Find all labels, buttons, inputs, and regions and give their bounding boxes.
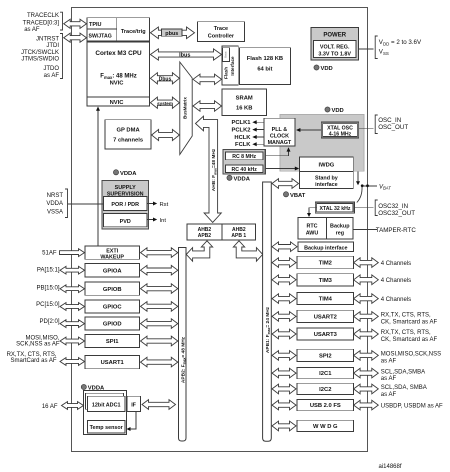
wire adc pins arrow [62,402,84,410]
svg-text:Cortex M3 CPU: Cortex M3 CPU [95,50,142,57]
wire I2C2 pins arrow [354,384,379,394]
svg-text:VDDA: VDDA [234,176,251,182]
wire apb2-USART1 arrow [141,357,178,367]
svg-text:GPIOA: GPIOA [103,268,122,274]
clock control gray region [280,115,364,172]
svg-text:4 Channels: 4 Channels [381,297,411,303]
wire busmatrix-flash arrow [193,74,222,84]
svg-text:WAKEUP: WAKEUP [100,255,124,261]
svg-text:TRACED[0:3]: TRACED[0:3] [23,20,60,26]
svg-text:I2C1: I2C1 [319,371,332,377]
svg-text:SCL,SDA,SMBA: SCL,SDA,SMBA [381,369,425,375]
svg-text:USART1: USART1 [101,360,125,366]
wire trace signals arrow [64,19,87,28]
USB 2.0 FS [297,400,354,411]
wire busmatrix-sram arrow [193,101,222,111]
XTAL OSC 4-16 MHz [321,122,359,138]
wire TIM4 pins arrow [354,294,379,304]
wire bridge to APB2 elbow arrow [186,241,212,261]
OSC32 pins bracket [375,200,378,216]
trace controller [197,22,244,42]
svg-text:USART3: USART3 [314,332,338,338]
svg-text:TIM2: TIM2 [319,261,332,267]
svg-text:W W D G: W W D G [313,424,338,430]
svg-text:MOSI,MISO,SCK,NSS: MOSI,MISO,SCK,NSS [381,352,441,358]
at VDDA label (supply) [113,170,118,175]
GP DMA [105,120,151,149]
wire apb1-TIM3 arrow [272,275,296,285]
PVD [103,214,147,227]
backup interface [298,242,354,252]
svg-text:CK, Smartcard as AF: CK, Smartcard as AF [381,337,438,343]
wire apb1-SPI2 arrow [272,351,296,361]
USART3 [297,328,354,340]
wire apb1-USB 2.0 FS arrow [272,400,296,410]
svg-text:VDD: VDD [332,108,344,114]
svg-text:AWU: AWU [306,230,319,236]
svg-text:4 Channels: 4 Channels [381,261,411,267]
wire exti to nvic [97,110,99,246]
svg-text:Flash 128 KB: Flash 128 KB [247,56,283,62]
svg-text:XTAL 32 kHz: XTAL 32 kHz [320,206,351,212]
SPI1 [85,335,140,348]
svg-text:I2C2: I2C2 [319,387,331,393]
ADC IF box [127,396,141,411]
wire adc if to temp sensor [130,412,137,429]
POR/PDR [103,196,147,210]
debug block (TPIU/SWJTAG/Trace-trig) [87,18,150,41]
wire rc40 to iwdg [265,168,297,170]
svg-text:SUPPLY: SUPPLY [115,185,136,191]
svg-text:BusMatrix: BusMatrix [182,97,187,119]
svg-text:AHB2: AHB2 [232,227,246,233]
wire Ibus arrow [150,49,221,60]
bus matrix [180,62,192,155]
svg-text:GPIOC: GPIOC [103,305,122,311]
svg-text:VOLT. REG.: VOLT. REG. [320,44,350,50]
EXTI WAKEUP [85,246,140,259]
svg-text:OSC32_OUT: OSC32_OUT [378,210,415,217]
svg-text:VDD: VDD [321,66,333,72]
RC oscillators block [223,149,265,174]
at VBAT label [283,192,288,197]
voltage regulator [314,40,356,57]
GPIOD [85,317,140,330]
svg-text:RX,TX, CTS, RTS,: RX,TX, CTS, RTS, [381,313,431,319]
jtag labels bracket [60,34,63,79]
wire apb1-I2C1 arrow [272,368,296,378]
svg-text:SW/JTAG: SW/JTAG [89,34,112,40]
wire VBAT [362,185,377,187]
svg-text:PCLK2: PCLK2 [231,128,250,134]
standby interface [300,171,354,188]
wire gpiod pins arrow [60,320,85,328]
svg-text:JNTRST: JNTRST [36,37,59,43]
I2C1 [297,367,354,378]
svg-text:APB2: APB2 [198,233,212,239]
svg-text:PCLK1: PCLK1 [231,120,251,126]
USART2 [297,310,354,322]
svg-text:PLL &: PLL & [272,127,288,133]
svg-text:Int: Int [160,218,167,224]
bridge AHB2/APB2 [187,224,222,240]
wire usart1 pins arrow [60,358,85,366]
svg-text:TPIU: TPIU [89,22,102,28]
wire TIM3 pins arrow [354,275,379,285]
wire gpiob pins arrow [60,285,85,293]
RC 8 MHz [225,152,263,160]
Cortex M3 CPU [87,42,150,106]
svg-text:as AF: as AF [381,376,397,382]
wire dma-busmatrix arrow [152,129,180,140]
svg-text:SRAM: SRAM [236,96,253,102]
svg-text:JTMS/SWDIO: JTMS/SWDIO [21,57,59,63]
wire apb2-GPIOA arrow [141,265,178,275]
wire bridge to APB1 elbow arrow [233,241,262,261]
AHB system bus band [196,116,222,222]
svg-text:NRST: NRST [47,193,64,199]
APB2 bus bar [179,248,187,442]
svg-text:AHB2: AHB2 [198,227,212,233]
svg-text:Temp sensor: Temp sensor [90,425,124,431]
svg-text:VDDA: VDDA [120,171,137,177]
wire pvd int [147,219,154,221]
svg-text:MOSI,MISO,: MOSI,MISO, [25,336,59,342]
svg-text:GPIOD: GPIOD [103,322,122,328]
wire vreg to VDD pins [359,48,374,50]
svg-text:VBAT: VBAT [379,184,391,190]
svg-text:3.3V TO 1.8V: 3.3V TO 1.8V [318,51,351,57]
ADC container [84,391,127,435]
at VDD label 1 [314,65,319,70]
svg-text:CK, Smartcard as AF: CK, Smartcard as AF [381,319,438,325]
svg-text:as AF: as AF [381,392,397,398]
GPIOC [85,300,140,313]
svg-text:IF: IF [131,402,136,408]
svg-text:as AF: as AF [381,358,397,364]
svg-text:USB 2.0 FS: USB 2.0 FS [310,403,341,409]
svg-text:4-16 MHz: 4-16 MHz [329,131,352,137]
GPIOA [85,264,140,277]
power block [311,28,359,61]
svg-text:VDDA: VDDA [46,201,63,207]
at VDDA label (rc osc) [227,175,232,180]
svg-text:CLOCK: CLOCK [270,134,289,140]
wire pbus arrow [150,27,194,39]
flash interface small box [223,48,230,62]
svg-text:NVIC: NVIC [110,81,125,87]
wire vdd to backup switch [357,171,359,182]
wire apb2-SPI1 arrow [141,336,178,346]
TIM3 [297,274,354,286]
IWDG [300,157,354,171]
svg-text:TAMPER-RTC: TAMPER-RTC [376,227,417,234]
svg-text:Backup: Backup [330,223,350,229]
svg-text:GP DMA: GP DMA [117,127,141,133]
wire apb2-adc arrow [142,400,176,410]
TPIU box [116,18,118,41]
wire apb1-USART2 arrow [272,312,296,322]
svg-text:RC 8 MHz: RC 8 MHz [232,154,256,160]
wire clock out [257,143,264,145]
svg-text:12bit ADC1: 12bit ADC1 [92,403,121,409]
OSC pins bracket [375,115,378,134]
svg-text:NVIC: NVIC [110,100,125,106]
wire apb2-EXTI WAKEUP arrow [141,248,178,258]
svg-text:Interface: Interface [230,56,235,76]
svg-text:Stand by: Stand by [315,176,338,182]
svg-text:reg: reg [336,230,344,236]
wire jtag signals arrow [64,33,87,42]
XTAL 32 kHz [315,202,354,213]
RTC and backup registers [298,217,353,239]
svg-text:RX,TX, CTS, RTS,: RX,TX, CTS, RTS, [381,330,431,336]
pbus label [162,29,182,36]
svg-text:PD[2:0]: PD[2:0] [39,319,59,325]
I2C2 [297,383,354,394]
SRAM [222,89,267,115]
wire apb1-TIM2 arrow [272,258,296,268]
svg-text:SPI2: SPI2 [319,354,332,360]
NVIC strip [87,96,150,98]
svg-text:OSC_OUT: OSC_OUT [378,124,408,131]
svg-text:Backup interface: Backup interface [304,245,347,251]
bridge AHB2/APB1 [222,224,256,240]
wire xtal32 to OSC32 pins [355,207,374,209]
battery switch blade [357,187,362,203]
wire xtal to pll [298,129,322,131]
supply supervision block [102,181,149,229]
wire tamper-rtc [353,229,377,231]
wire apb1-USART3 arrow [272,329,296,339]
svg-text:interface: interface [315,182,337,188]
svg-text:GPIOB: GPIOB [103,287,122,293]
svg-text:TRACECLK: TRACECLK [27,13,59,19]
svg-text:APB 1: APB 1 [231,233,246,239]
wire apb2-GPIOB arrow [141,284,178,294]
wire exti pins arrow [60,249,85,257]
wire por rst [147,203,154,205]
wire nrst to por [68,203,104,205]
svg-text:PC[15:0]: PC[15:0] [36,302,60,308]
USART1 [85,356,140,369]
W W D G [297,420,354,431]
svg-text:SPI1: SPI1 [106,339,119,345]
svg-text:TIM3: TIM3 [319,278,333,284]
svg-text:EXTI: EXTI [106,248,118,254]
svg-text:VSSA: VSSA [47,210,63,216]
wire apb1-standby arrow [272,179,299,189]
wire USB 2.0 FS pins arrow [354,400,379,410]
svg-text:JTDI: JTDI [46,43,59,49]
svg-text:Trace: Trace [214,26,228,32]
svg-text:system: system [157,101,173,106]
svg-text:Rst: Rst [160,202,169,208]
svg-text:SCL,SDA, SMBA: SCL,SDA, SMBA [381,385,427,391]
svg-text:Ibus: Ibus [179,53,190,59]
at VDD label 2 [325,107,330,112]
APB1 bus bar [263,182,272,441]
svg-text:SCK,NSS as AF: SCK,NSS as AF [16,342,60,348]
wire apb2-GPIOC arrow [141,302,178,312]
svg-text:Fmax: 48 MHz: Fmax: 48 MHz [100,74,136,81]
wire clock out [257,136,264,138]
wire apb1-W W D G arrow [272,421,296,431]
svg-text:as AF: as AF [44,73,60,79]
RC 40 kHz [225,165,263,173]
PLL and clock management [264,118,295,146]
wire xtal to OSC pins [359,127,374,129]
flash memory [239,48,290,85]
SPI2 [297,349,354,361]
svg-text:RC 40 kHz: RC 40 kHz [232,167,258,173]
wire TIM2 pins arrow [354,258,379,268]
TIM4 [297,293,354,305]
flash interface [222,46,238,85]
wire Dbus arrow [150,73,179,84]
svg-text:FCLK: FCLK [235,142,251,148]
svg-text:VDDA: VDDA [88,386,105,392]
svg-text:Controller: Controller [208,33,235,39]
svg-text:RX,TX, CTS, RTS,: RX,TX, CTS, RTS, [7,352,57,358]
wire apb2-GPIOD arrow [141,319,178,329]
wire system arrow [150,97,179,108]
svg-text:IWDG: IWDG [319,163,335,169]
12bit ADC1 [88,396,126,411]
svg-text:51AF: 51AF [42,251,57,257]
svg-text:64 bit: 64 bit [257,67,272,73]
wire I2C1 pins arrow [354,368,379,378]
GPIOB [85,282,140,295]
at VDDA label (adc) [81,384,86,389]
svg-text:SmartCard as AF: SmartCard as AF [10,358,56,364]
svg-text:JTDO: JTDO [43,66,59,72]
svg-text:PVD: PVD [120,219,131,225]
svg-text:ai14868f: ai14868f [379,464,402,470]
wire apb1-TIM4 arrow [272,294,296,304]
wire USART2 pins arrow [354,312,379,322]
svg-text:MANAGT: MANAGT [268,140,292,146]
svg-text:RTC: RTC [306,223,317,229]
svg-text:16 AF: 16 AF [42,404,58,410]
Temp sensor [88,420,126,433]
wire USART3 pins arrow [354,329,379,339]
svg-text:POWER: POWER [323,32,346,38]
wire spi1 pins arrow [60,337,85,345]
VDD pins bracket [375,36,378,59]
svg-text:Trace/trig: Trace/trig [121,29,146,35]
svg-text:PA[15:1]: PA[15:1] [37,268,60,274]
outer device frame [72,8,368,452]
svg-text:JTCK/SWCLK: JTCK/SWCLK [21,50,59,56]
svg-text:POR / PDR: POR / PDR [111,202,139,208]
wire rc8 to pll [265,150,288,156]
svg-text:as AF: as AF [24,27,40,33]
svg-text:USART2: USART2 [314,315,337,321]
wire clock out [257,129,264,131]
wire clock out [257,121,264,123]
svg-text:TIM4: TIM4 [319,297,333,303]
TIM2 [297,256,354,269]
wire gpioc pins arrow [60,303,85,311]
svg-text:Flash: Flash [223,67,228,79]
svg-text:Dbus: Dbus [159,77,172,83]
svg-text:pbus: pbus [165,31,178,37]
svg-text:PB[15:0]: PB[15:0] [36,285,59,291]
svg-text:Ibus: Ibus [223,51,227,57]
svg-text:7 channels: 7 channels [113,138,143,144]
ADC shadow box [86,393,124,409]
wire apb1-backup itf arrow [272,242,297,252]
svg-text:16 KB: 16 KB [236,106,252,112]
wire apb1-I2C2 arrow [272,384,296,394]
svg-text:VBAT: VBAT [290,193,306,199]
svg-text:4 Channels: 4 Channels [381,278,411,284]
trace labels bracket [60,12,63,30]
wire SPI2 pins arrow [354,351,379,361]
wire xtal32 to rtc [309,208,317,214]
wire gpioa pins arrow [60,266,85,274]
svg-text:HCLK: HCLK [234,135,251,141]
svg-text:USBDP, USBDM as AF: USBDP, USBDM as AF [381,403,443,409]
